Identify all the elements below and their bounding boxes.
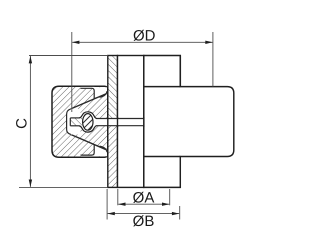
ØB arrows (107, 212, 115, 215)
ØD left extension line (71, 32, 73, 112)
bracket plate (hatched, chevron) (108, 56, 118, 188)
svg-text:ØD: ØD (133, 27, 156, 44)
socket seat interior (white) (81, 112, 95, 132)
plate edges over shaft (107, 117, 109, 127)
dimension C (19, 56, 108, 188)
ØD dimension line (72, 41, 212, 43)
hub taper line top (71, 94, 107, 109)
svg-text:C: C (14, 118, 31, 129)
bottom step/block interface line (144, 156, 181, 158)
ØA dimension line (118, 203, 169, 205)
ØB left extension line (106, 189, 108, 220)
ØA left extension line (117, 189, 119, 205)
block left edge over shaft (143, 117, 145, 127)
dimension ØA (118, 189, 170, 205)
socket seat lips (dark curves over and under ball) (79, 112, 97, 132)
recess notch top-right of wheel (white) (81, 87, 108, 99)
stud end (hatched) (70, 118, 82, 126)
dimension ØD (72, 32, 213, 112)
dimension ØB (107, 189, 180, 220)
C arrows (29, 56, 32, 64)
top step/block interface line (144, 86, 181, 88)
ØD arrows (72, 41, 80, 44)
ØB dimension line (108, 213, 180, 215)
right stepped block (white) (144, 56, 234, 188)
block top edge detail line (179, 56, 181, 87)
ØB right extension line (179, 206, 181, 220)
svg-text:ØB: ØB (133, 213, 155, 230)
C dimension line (29, 56, 31, 187)
hub taper line bottom (71, 135, 107, 150)
stud pocket (white recess in hub) (67, 109, 81, 135)
ØA arrows (118, 203, 126, 206)
C bottom extension line (19, 186, 108, 188)
spacer column (white) (118, 56, 144, 188)
svg-text:ØA: ØA (133, 189, 155, 206)
wheel body (left housing, hatched) (52, 86, 108, 157)
stud shaft lines to the right (97, 119, 144, 126)
ØA right extension line (169, 189, 171, 205)
recess notch bottom-right of wheel (white) (81, 145, 108, 157)
C top extension line (29, 55, 108, 57)
shaft hole white band (70, 119, 144, 125)
ball (hatched) (78, 102, 98, 140)
ØD right extension line (212, 32, 214, 87)
